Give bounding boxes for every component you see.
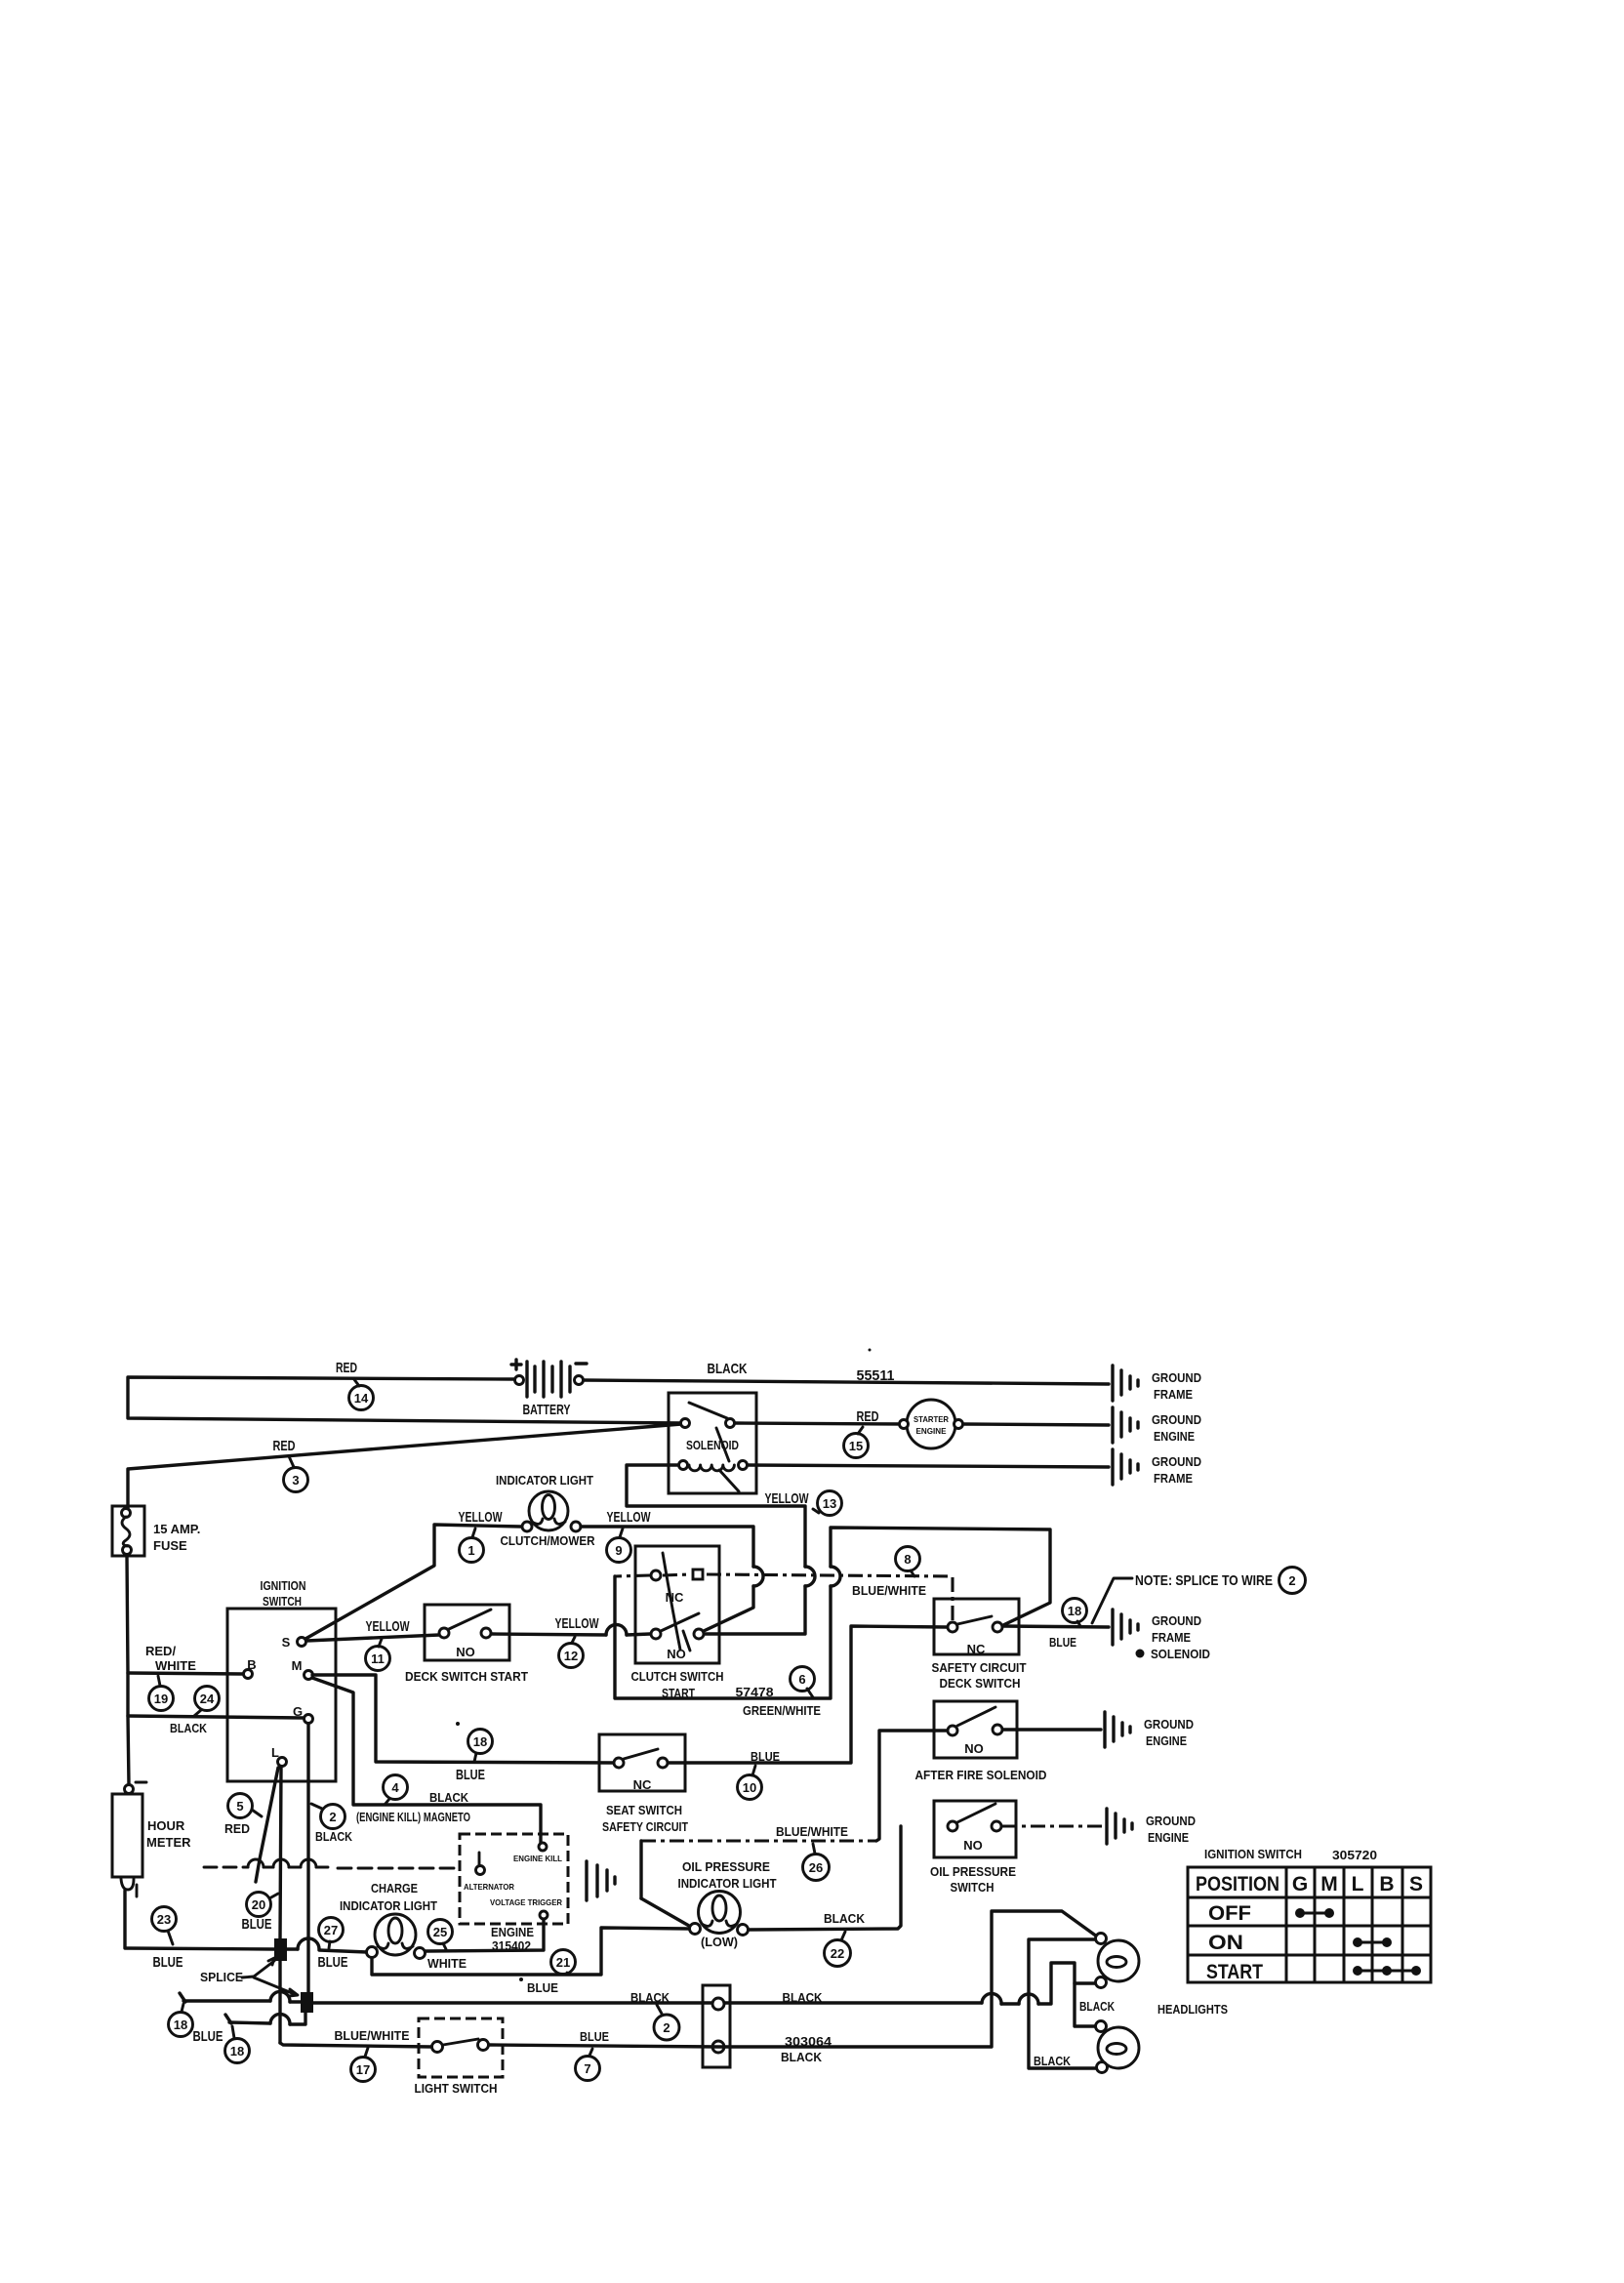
svg-text:7: 7 [584, 2061, 590, 2076]
svg-text:RED: RED [336, 1360, 357, 1376]
wire 12 YELLOW: deck switch to clutch switch [492, 1634, 606, 1635]
svg-text:ALTERNATOR: ALTERNATOR [464, 1882, 514, 1892]
svg-text:11: 11 [371, 1651, 385, 1666]
svg-text:BLUE: BLUE [242, 1916, 272, 1933]
wire 2 BLACK: G down to splice 2 [306, 1724, 309, 1994]
svg-text:S: S [282, 1635, 291, 1650]
svg-text:G: G [293, 1704, 303, 1719]
wire 15 RED: solenoid to starter [735, 1423, 906, 1424]
svg-text:315402: 315402 [492, 1938, 531, 1953]
svg-text:CLUTCH SWITCH: CLUTCH SWITCH [631, 1669, 724, 1684]
svg-text:FRAME: FRAME [1154, 1387, 1193, 1402]
splice 2 [301, 1992, 313, 2013]
svg-text:SWITCH: SWITCH [263, 1594, 302, 1609]
push-in connector [703, 1985, 730, 2067]
svg-text:27: 27 [324, 1923, 338, 1937]
wire 26 BLUE/WHITE: oil light to after fire solenoid [641, 1898, 689, 1926]
wire 55511 BLACK: battery negative to ground frame [584, 1380, 1109, 1384]
svg-text:METER: METER [146, 1835, 191, 1850]
engine box [460, 1834, 568, 1924]
svg-text:INDICATOR LIGHT: INDICATOR LIGHT [496, 1473, 593, 1488]
svg-text:9: 9 [615, 1543, 622, 1558]
svg-text:M: M [292, 1658, 303, 1673]
svg-text:B: B [1379, 1873, 1394, 1896]
svg-text:RED: RED [857, 1408, 879, 1425]
svg-text:INDICATOR LIGHT: INDICATOR LIGHT [340, 1898, 437, 1913]
wire 9 YELLOW: lamp to clutch switch [581, 1527, 753, 1567]
ignition switch box [227, 1609, 336, 1781]
svg-text:BLACK: BLACK [315, 1829, 353, 1844]
svg-text:BLACK: BLACK [781, 2050, 823, 2064]
svg-text:1: 1 [467, 1543, 474, 1558]
svg-text:21: 21 [556, 1955, 570, 1970]
svg-text:19: 19 [154, 1692, 168, 1706]
svg-text:26: 26 [809, 1860, 823, 1875]
wire 20 BLUE: L down to splice 1 [280, 1767, 281, 1939]
svg-text:YELLOW: YELLOW [607, 1509, 652, 1526]
svg-text:YELLOW: YELLOW [459, 1509, 504, 1526]
ground frame G3 [1113, 1449, 1201, 1486]
svg-text:18: 18 [174, 2018, 187, 2032]
svg-text:2: 2 [329, 1810, 336, 1824]
svg-text:BLUE/WHITE: BLUE/WHITE [335, 2028, 410, 2043]
svg-text:S: S [1409, 1873, 1423, 1896]
wire 21 BLUE: charge light to oil light [372, 1928, 689, 1975]
svg-text:HEADLIGHTS: HEADLIGHTS [1157, 2002, 1228, 2017]
svg-text:SAFETY CIRCUIT: SAFETY CIRCUIT [602, 1819, 688, 1834]
svg-text:SOLENOID: SOLENOID [686, 1438, 739, 1452]
svg-text:BLUE: BLUE [318, 1954, 348, 1971]
svg-text:G: G [1292, 1873, 1308, 1896]
svg-text:YELLOW: YELLOW [555, 1615, 600, 1632]
magneto dash-dot line [204, 1866, 248, 1869]
svg-text:BLACK: BLACK [1034, 2054, 1072, 2068]
svg-text:SAFETY CIRCUIT: SAFETY CIRCUIT [932, 1660, 1027, 1675]
svg-text:IGNITION: IGNITION [261, 1578, 306, 1593]
svg-text:STARTER: STARTER [913, 1414, 949, 1424]
svg-text:OFF: OFF [1208, 1902, 1251, 1925]
svg-text:303064: 303064 [785, 2034, 832, 2049]
svg-text:SWITCH: SWITCH [951, 1880, 995, 1895]
svg-text:14: 14 [354, 1391, 369, 1406]
svg-text:BLUE: BLUE [153, 1954, 183, 1971]
battery [511, 1360, 587, 1418]
wire 25 WHITE: charge light to voltage trigger [426, 1919, 544, 1951]
svg-text:10: 10 [743, 1780, 756, 1795]
svg-text:BLACK: BLACK [824, 1911, 866, 1926]
svg-text:BLACK: BLACK [429, 1790, 469, 1805]
magneto bars [585, 1861, 588, 1900]
svg-text:20: 20 [252, 1897, 265, 1912]
svg-text:24: 24 [200, 1692, 215, 1706]
clutch switch start [635, 1546, 719, 1663]
svg-text:GROUND: GROUND [1152, 1412, 1201, 1427]
wire 20 continuation below splice 1 to light switch row [278, 1961, 281, 2043]
wire 8 BLUE/WHITE dash-dot from clutch NC [615, 1575, 650, 1576]
svg-text:BLUE: BLUE [456, 1767, 485, 1783]
svg-text:DECK SWITCH: DECK SWITCH [940, 1676, 1021, 1691]
ground engine G5 [1103, 1712, 1106, 1747]
seat switch safety circuit [599, 1734, 685, 1791]
svg-text:FRAME: FRAME [1152, 1630, 1191, 1645]
svg-text:RED/: RED/ [145, 1644, 176, 1658]
wire 14 RED: battery positive feed [128, 1377, 682, 1423]
svg-text:17: 17 [356, 2062, 370, 2077]
svg-text:RED: RED [273, 1438, 296, 1454]
svg-text:3: 3 [292, 1473, 299, 1488]
wire 18 stub b [225, 2015, 231, 2023]
wire 10 BLUE: seat switch to safety deck switch [669, 1626, 947, 1763]
svg-text:IGNITION SWITCH: IGNITION SWITCH [1204, 1847, 1302, 1861]
svg-text:(ENGINE KILL) MAGNETO: (ENGINE KILL) MAGNETO [356, 1810, 470, 1824]
wire 24 BLACK to ignition G [128, 1716, 304, 1718]
headlight top [1098, 1940, 1139, 1981]
svg-text:NOTE: SPLICE TO WIRE: NOTE: SPLICE TO WIRE [1135, 1572, 1273, 1589]
svg-text:13: 13 [823, 1496, 836, 1511]
svg-text:INDICATOR LIGHT: INDICATOR LIGHT [678, 1876, 777, 1891]
svg-text:GROUND: GROUND [1146, 1814, 1196, 1828]
fuse 15 AMP [112, 1506, 144, 1556]
ground engine G6 [1105, 1809, 1108, 1844]
svg-text:ENGINE: ENGINE [1148, 1830, 1189, 1845]
svg-text:DECK SWITCH START: DECK SWITCH START [405, 1669, 528, 1684]
svg-text:GREEN/WHITE: GREEN/WHITE [743, 1703, 821, 1718]
speck dots [869, 1349, 872, 1352]
svg-text:YELLOW: YELLOW [366, 1618, 411, 1635]
svg-text:BLUE: BLUE [1049, 1635, 1076, 1650]
svg-text:SEAT SWITCH: SEAT SWITCH [606, 1803, 682, 1817]
wire 13 YELLOW: solenoid coil to clutch switch NO [627, 1465, 805, 1567]
svg-text:ENGINE: ENGINE [1154, 1429, 1195, 1444]
svg-text:(LOW): (LOW) [701, 1935, 738, 1949]
svg-text:GROUND: GROUND [1152, 1454, 1201, 1469]
svg-text:BATTERY: BATTERY [523, 1402, 571, 1418]
after fire solenoid [934, 1701, 1017, 1758]
svg-text:FUSE: FUSE [153, 1538, 187, 1553]
svg-text:HOUR: HOUR [147, 1818, 185, 1833]
circle label 14 [349, 1386, 374, 1410]
svg-text:SPLICE: SPLICE [200, 1970, 243, 1984]
svg-text:ENGINE KILL: ENGINE KILL [513, 1854, 562, 1863]
svg-text:L: L [1352, 1873, 1364, 1896]
svg-text:WHITE: WHITE [155, 1658, 196, 1673]
svg-text:GROUND: GROUND [1144, 1717, 1194, 1732]
svg-text:START: START [1206, 1961, 1263, 1983]
leader 14 [353, 1378, 359, 1386]
wire solenoid coil to ground frame [748, 1465, 1109, 1467]
svg-text:BLACK: BLACK [170, 1721, 208, 1735]
svg-text:22: 22 [831, 1946, 844, 1961]
svg-text:18: 18 [473, 1734, 487, 1749]
svg-text:15: 15 [849, 1439, 863, 1453]
wire 3 RED: fuse to solenoid [128, 1424, 681, 1508]
wire 23 BLUE: hour meter to splice 1 [125, 1948, 274, 1949]
svg-text:6: 6 [798, 1672, 805, 1687]
svg-text:BLUE: BLUE [527, 1980, 558, 1995]
svg-text:18: 18 [1068, 1604, 1081, 1618]
wire 4 BLACK: M to engine kill magneto [312, 1678, 541, 1843]
svg-text:OIL PRESSURE: OIL PRESSURE [682, 1859, 770, 1874]
svg-text:L: L [271, 1745, 279, 1760]
svg-text:ON: ON [1208, 1932, 1243, 1954]
svg-text:YELLOW: YELLOW [765, 1490, 810, 1507]
svg-text:18: 18 [230, 2044, 244, 2059]
svg-text:NC: NC [967, 1642, 986, 1656]
svg-text:LIGHT SWITCH: LIGHT SWITCH [415, 2081, 498, 2096]
safety circuit deck switch [934, 1599, 1019, 1654]
svg-text:12: 12 [564, 1649, 578, 1663]
wire 22 BLACK: oil light to oil pressure switch [749, 1826, 901, 1930]
svg-text:ENGINE: ENGINE [491, 1925, 534, 1939]
svg-text:NO: NO [963, 1838, 983, 1853]
wire 19 RED/WHITE to ignition B [128, 1673, 243, 1674]
wire starter to ground engine [963, 1424, 1109, 1425]
svg-text:55511: 55511 [857, 1367, 895, 1384]
svg-text:AFTER FIRE SOLENOID: AFTER FIRE SOLENOID [915, 1768, 1047, 1782]
ON contacts L-B [1353, 1937, 1362, 1947]
svg-text:BLACK: BLACK [783, 1990, 824, 2005]
svg-text:BLACK: BLACK [1079, 1999, 1115, 2014]
START contacts L-B-S [1353, 1966, 1362, 1976]
ground frame solenoid G4 [1111, 1610, 1114, 1645]
svg-text:NO: NO [964, 1741, 984, 1756]
svg-text:OIL PRESSURE: OIL PRESSURE [930, 1864, 1016, 1879]
svg-text:VOLTAGE TRIGGER: VOLTAGE TRIGGER [490, 1897, 562, 1907]
svg-text:ENGINE: ENGINE [916, 1426, 947, 1436]
svg-text:5: 5 [236, 1799, 243, 1814]
svg-text:BLUE: BLUE [751, 1749, 780, 1764]
solenoid [669, 1393, 756, 1493]
headlight bottom [1098, 2027, 1139, 2068]
wire from S up to indicator light [305, 1525, 521, 1639]
wire 17 BLUE/WHITE: splice to light switch [280, 2043, 431, 2047]
svg-text:BLUE/WHITE: BLUE/WHITE [776, 1824, 848, 1839]
deck switch start [425, 1605, 509, 1660]
svg-text:CHARGE: CHARGE [371, 1881, 418, 1896]
svg-text:M: M [1320, 1873, 1338, 1896]
svg-text:BLUE: BLUE [193, 2028, 223, 2045]
svg-text:4: 4 [391, 1780, 399, 1795]
svg-text:2: 2 [1288, 1573, 1295, 1588]
wire 11 YELLOW: S to deck switch [306, 1635, 439, 1641]
svg-text:FRAME: FRAME [1154, 1471, 1193, 1486]
svg-text:25: 25 [433, 1925, 447, 1939]
wire 7 BLUE / 303064 BLACK: light switch to headlights [489, 1911, 1097, 2047]
svg-text:15 AMP.: 15 AMP. [153, 1522, 200, 1536]
svg-text:23: 23 [157, 1912, 171, 1927]
svg-text:8: 8 [904, 1552, 911, 1567]
wire 18 BLUE: M to seat switch [312, 1675, 614, 1763]
svg-text:BLUE/WHITE: BLUE/WHITE [852, 1583, 926, 1598]
svg-text:BLACK: BLACK [708, 1361, 748, 1377]
oil pressure switch [934, 1801, 1016, 1857]
wire 6 GREEN/WHITE loop around clutch switch [615, 1576, 831, 1698]
svg-text:GROUND: GROUND [1152, 1370, 1201, 1385]
OFF contacts G-M [1295, 1908, 1305, 1918]
starter engine [900, 1400, 963, 1448]
svg-text:POSITION: POSITION [1196, 1873, 1279, 1896]
svg-text:NC: NC [633, 1777, 652, 1792]
svg-text:SOLENOID: SOLENOID [1151, 1647, 1210, 1661]
splice 1 [274, 1938, 287, 1961]
svg-text:CLUTCH/MOWER: CLUTCH/MOWER [501, 1533, 596, 1548]
wire 18 BLUE to ground frame solenoid [1003, 1626, 1109, 1627]
svg-text:WHITE: WHITE [427, 1956, 467, 1971]
note: splice to wire 2 [1092, 1578, 1132, 1623]
hour meter [125, 1785, 134, 1794]
light switch [419, 2018, 503, 2077]
svg-text:BLACK: BLACK [630, 1990, 670, 2005]
wire 27 BLUE: splice 1 to charge light [287, 1947, 298, 1950]
svg-text:305720: 305720 [1332, 1848, 1377, 1862]
svg-text:NO: NO [667, 1647, 686, 1661]
svg-text:2: 2 [663, 2020, 670, 2035]
wire 18 stub a [180, 1993, 185, 2002]
wire 2 BLACK headlight row [312, 2001, 982, 2004]
svg-text:ENGINE: ENGINE [1146, 1733, 1187, 1748]
ground engine G2 [1113, 1407, 1201, 1444]
svg-text:GROUND: GROUND [1152, 1613, 1201, 1628]
svg-text:NO: NO [456, 1645, 475, 1659]
svg-text:RED: RED [224, 1821, 250, 1836]
ground frame G1 [1113, 1366, 1201, 1402]
spark plug glyph [478, 1853, 481, 1865]
svg-text:BLUE: BLUE [580, 2029, 609, 2044]
wire 5 RED: L to magneto stub [256, 1768, 278, 1882]
wire BLACK: headlight top to bottom [1029, 1939, 1096, 2068]
left supply vertical: fuse to hour meter [127, 1556, 129, 1784]
